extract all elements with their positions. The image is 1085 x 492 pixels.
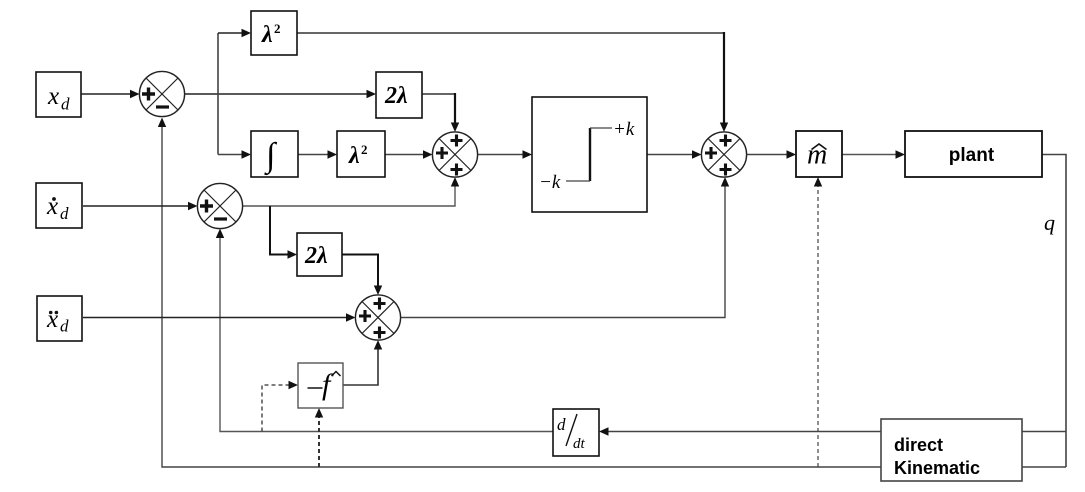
svg-text:Kinematic: Kinematic: [894, 458, 980, 478]
block 2lambda lower: [297, 233, 342, 276]
arrowhead dashed into f-hat left: [289, 381, 299, 389]
block 2lambda top: [376, 72, 422, 118]
svg-text:x: x: [46, 306, 58, 333]
arrowhead dashed into m-hat bottom: [814, 177, 822, 187]
block f-hat: [298, 363, 343, 408]
svg-text:x: x: [47, 83, 59, 110]
wire 2lambda lower output to S5 top: [342, 255, 378, 287]
arrowhead into S3 top: [451, 123, 459, 133]
wire xd to sum S1: [81, 93, 131, 95]
wire d/dt output feedback to S2 bottom: [220, 233, 553, 432]
block xd-ddot input: [37, 296, 82, 341]
wire q to direct kinematic right stub upper: [1022, 431, 1066, 433]
svg-text:−k: −k: [539, 172, 561, 193]
svg-text:plant: plant: [949, 145, 995, 166]
wire S5 output to S4 bottom: [401, 186, 726, 318]
svg-text:d: d: [557, 415, 566, 434]
svg-text:d: d: [60, 317, 69, 336]
wire lambda^2 top output to sum S4 top: [297, 32, 724, 34]
wire relay output to sum S4: [647, 154, 693, 156]
svg-text:2: 2: [361, 142, 368, 157]
svg-text:λ: λ: [261, 22, 273, 48]
wire integrator to lambda^2 mid: [298, 154, 328, 156]
arrowhead into S5 top: [374, 286, 382, 296]
svg-text:2: 2: [274, 21, 281, 36]
wire f-hat output to S5 bottom: [343, 349, 378, 385]
wire xd-ddot to sum S5: [83, 317, 347, 319]
dashed wire into f-hat left: [262, 385, 289, 432]
arrowhead into S2 bottom: [216, 229, 224, 239]
arrowhead into m-hat: [787, 150, 797, 158]
arrowhead into S5 bottom: [374, 340, 382, 350]
block xd-dot input: [36, 183, 82, 228]
block d/dt: [553, 409, 599, 456]
wire branch to lambda^2 top: [218, 32, 242, 34]
arrowhead into lambda^2 top: [242, 29, 252, 37]
arrowhead into relay: [523, 150, 533, 158]
svg-text:dt: dt: [573, 436, 586, 452]
svg-text:d: d: [61, 95, 70, 114]
svg-text:2λ: 2λ: [384, 83, 408, 109]
wire 2lambda output down to sum S3 top: [422, 93, 455, 95]
wire m-hat to plant: [842, 154, 896, 156]
dashed wire into f-hat bottom: [318, 417, 320, 467]
arrowhead dashed into f-hat bottom: [315, 408, 323, 418]
block m-hat: [796, 131, 842, 177]
arrowhead into S4 left: [692, 150, 702, 158]
arrowhead into S1 bottom: [158, 118, 166, 128]
wire branch vertical at x=218: [217, 33, 219, 155]
svg-text:m: m: [807, 140, 827, 171]
svg-text:2λ: 2λ: [304, 243, 328, 269]
arrowhead into lambda^2 mid: [328, 150, 338, 158]
block integrator: [251, 131, 298, 177]
arrowhead into S1 left: [130, 90, 140, 98]
arrowhead into S4 bottom: [721, 177, 729, 187]
arrowhead into integrator: [242, 150, 252, 158]
arrowhead into S3 left: [423, 150, 433, 158]
wire xd-dot to sum S2: [83, 205, 189, 207]
arrowhead into 2lambda lower: [288, 250, 298, 258]
wire S1 output to 2lambda block: [185, 93, 368, 95]
arrowhead into S3 bottom: [451, 177, 459, 187]
summing junction S2: [197, 183, 242, 228]
arrowhead into 2lambda: [367, 90, 377, 98]
block lambda^2 top: [251, 11, 297, 55]
block direct kinematic: [881, 419, 1022, 481]
svg-text:+k: +k: [613, 119, 635, 140]
summing junction S4: [701, 132, 746, 177]
wire branch to integrator: [218, 154, 242, 156]
wire direct kinematic to d/dt: [608, 431, 881, 433]
svg-text:λ: λ: [348, 143, 360, 169]
wire S4 output to m-hat block: [747, 154, 788, 156]
arrowhead into d/dt right: [599, 427, 609, 435]
dashed wire into m-hat bottom: [817, 186, 819, 467]
wire lambda^2 mid to sum S3: [385, 154, 424, 156]
summing junction S1: [139, 71, 184, 116]
block xd input: [36, 72, 81, 117]
arrowhead into S2 left: [188, 202, 198, 210]
wire bottom feedback line from direct kinematic to S1: [162, 122, 881, 467]
wire plant output q down right side: [1042, 155, 1066, 468]
wire S2 output to S3 bottom: [243, 186, 456, 206]
block relay with saturation levels: [532, 97, 647, 212]
svg-text:x: x: [46, 193, 58, 220]
summing junction S3: [432, 132, 477, 177]
summing junction S5: [355, 295, 400, 340]
wire S2 branch down to 2lambda lower: [270, 206, 288, 255]
arrowhead into S5 left: [346, 313, 356, 321]
block lambda^2 mid: [337, 131, 385, 177]
wire S3 output to relay block: [478, 154, 524, 156]
wire q to direct kinematic right stub lower: [1022, 466, 1066, 468]
svg-text:d: d: [60, 204, 69, 223]
arrowhead into S4 top: [720, 123, 728, 133]
arrowhead into plant: [896, 150, 906, 158]
svg-text:q: q: [1044, 210, 1055, 235]
svg-text:direct: direct: [894, 435, 943, 455]
block plant: [905, 131, 1042, 177]
